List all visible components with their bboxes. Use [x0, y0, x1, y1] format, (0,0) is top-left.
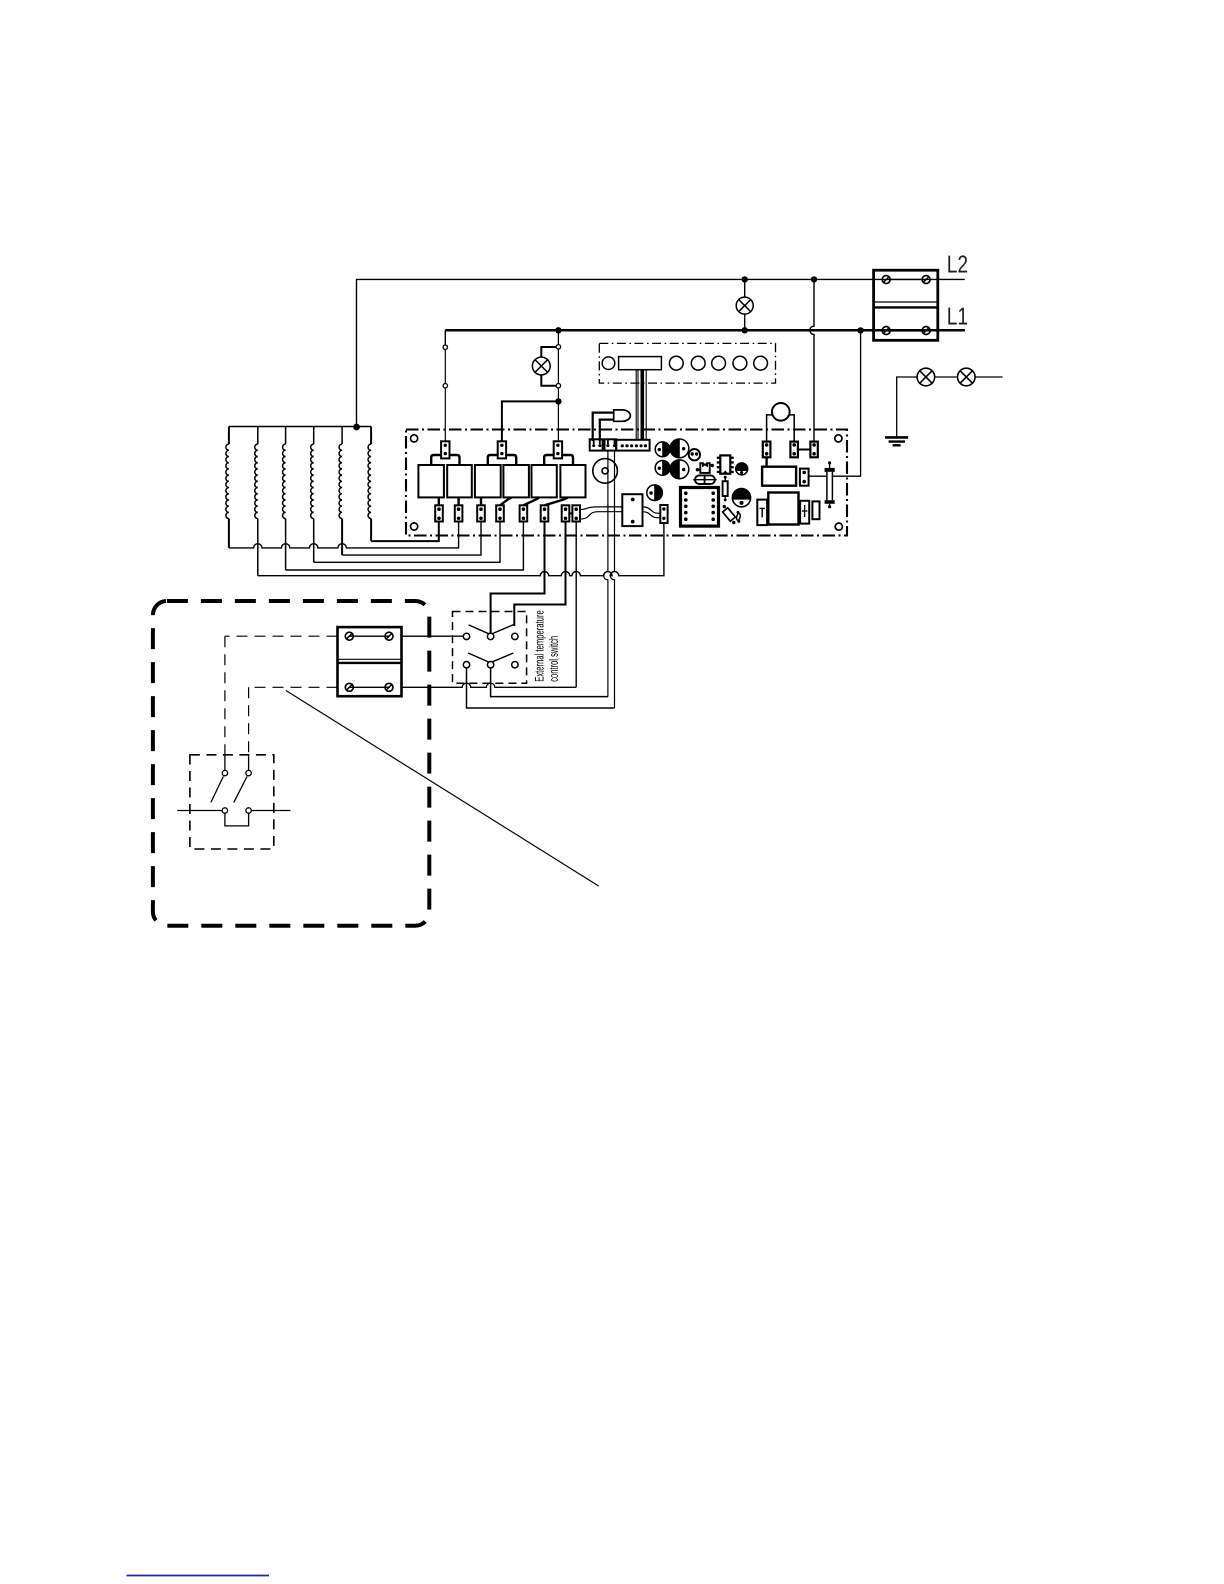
- node junction L1-thermal switch: [555, 327, 561, 333]
- node junction below right cutout: [555, 398, 561, 404]
- voltage regulator U4: [768, 493, 798, 525]
- ext-switch top: common contact: [487, 633, 493, 639]
- external control unit enclosure (heavy dashed box): [153, 601, 429, 926]
- wire heater coil 6 to connector C1: [371, 522, 439, 542]
- transistor Q2: [732, 489, 750, 507]
- thermostat through-wire: [177, 810, 222, 812]
- panel button 2: [691, 356, 705, 370]
- panel indicator circle: [602, 357, 615, 370]
- mains connector CN-C: [810, 442, 817, 458]
- diode D2: [670, 439, 689, 458]
- wire right of earth lamps: [975, 376, 1003, 378]
- wire track motor connector to C9 (lower): [643, 512, 661, 518]
- terminal block TB2 (external switch terminals): [338, 627, 402, 696]
- leader line to external switch: [286, 691, 599, 887]
- ext-switch bottom blade right: [492, 653, 513, 662]
- PCB header connector CN3 (display ribbon): [616, 440, 649, 451]
- wire L1 junction down to right thermal cutout: [557, 330, 559, 344]
- external temperature control switch enclosure (dashed): [453, 612, 527, 684]
- relay group 2: input connector, bracket and relays K2a K2b: [498, 441, 506, 458]
- thermostat pole 2 upper contact: [248, 755, 250, 771]
- wire between left cutout contacts: [444, 349, 446, 383]
- earth lamp EL2: [958, 368, 976, 386]
- wire left cutout to PCB connector: [444, 388, 446, 442]
- output connector C6: [541, 505, 549, 521]
- wire connector C8 down to thermostat line: [575, 522, 577, 688]
- terminal block TB1 (L2/L1 input): [874, 270, 938, 340]
- ext-switch top: left contact: [463, 633, 469, 639]
- transformer output connector CN-T: [800, 469, 809, 486]
- diode D4: [670, 460, 689, 479]
- node junction L2-PCB drop: [811, 276, 817, 282]
- node junction L1-transformer drop: [857, 327, 863, 333]
- thermostat pole 1 upper contact: [224, 755, 226, 771]
- wire L2 line: [357, 279, 965, 427]
- wire heater coil 5 to connector C3: [342, 522, 481, 556]
- wire TB2 bottom row to connector C8 (hops over switch drops): [402, 683, 577, 687]
- panel button 1: [669, 356, 683, 370]
- indicator lamp HL2 across right cutout: [541, 347, 555, 357]
- label L2: [948, 255, 967, 272]
- phantom wire TB2 bottom to thermostat (dashed): [249, 686, 338, 688]
- connector C9: [660, 505, 667, 523]
- wire track motor connector to C9 (upper): [643, 507, 661, 513]
- heater element coil 2: [257, 427, 259, 445]
- ext-switch bottom: common contact: [487, 662, 493, 668]
- ext-switch top blade right: [492, 625, 513, 634]
- wire right cutout to junction: [557, 388, 559, 442]
- transformer T1: [762, 467, 796, 486]
- PCB header connector CN1 (LED): [590, 439, 603, 450]
- wire relay K3b to connector C6 (diagonal): [545, 497, 569, 505]
- wire from L1 junction down-right to transformer connector: [809, 330, 861, 476]
- heater top bus from L2: [229, 426, 371, 428]
- ext-switch top: right contact: [512, 633, 518, 639]
- wire relay K1b to connector C2: [457, 497, 459, 505]
- wire relay K2b to connector C4 (diagonal): [500, 497, 512, 505]
- motor connector CN4: [622, 494, 642, 526]
- transistor Q1: [736, 463, 748, 475]
- left thermal cutout contact b: [443, 384, 447, 388]
- wire between earth lamps: [935, 376, 958, 378]
- wire relay K2a to connector C3: [480, 497, 482, 505]
- thermal sensor connector CN-B: [790, 442, 798, 458]
- resistor R1: [723, 481, 728, 496]
- LED indicator above PCB: [593, 413, 614, 441]
- wire heater coil 2 long line to connector C9 (hops): [258, 523, 664, 576]
- wire L1 line: [445, 329, 965, 332]
- wire TB2 top row to ext-switch left contact: [402, 635, 464, 637]
- microcontroller IC U1: [681, 488, 719, 527]
- panel button 5: [754, 356, 768, 370]
- output connector C4: [496, 505, 504, 521]
- diode D1: [655, 442, 670, 457]
- PCB mounting hole bottom-left: [411, 523, 418, 530]
- thermal sensor connector CN-A: [763, 442, 771, 458]
- node junction L2-lamp: [742, 276, 748, 282]
- diode D5: [647, 485, 663, 501]
- output connector C2: [455, 505, 463, 521]
- indicator lamp HL1 between L2 and L1: [744, 279, 746, 297]
- capacitor C3: [812, 501, 819, 519]
- diode D3: [655, 461, 670, 476]
- thermostat pole 1 blade: [211, 777, 223, 803]
- ext-switch top blade left: [469, 625, 489, 634]
- PCB mounting hole top-right: [835, 435, 842, 442]
- right thermal cutout contact b: [556, 384, 560, 388]
- buzzer BZ1: [593, 459, 618, 484]
- label L1: [948, 308, 967, 325]
- right thermal cutout contact a: [556, 345, 560, 349]
- heater element coil 6: [370, 427, 372, 445]
- output connector C5: [520, 505, 528, 521]
- PCB mounting hole bottom-right: [835, 523, 842, 530]
- heater element coil 1: [228, 427, 230, 445]
- wire branch junction to PCB connector 2: [502, 401, 559, 441]
- relay group 1: input connector, bracket and relays K1a K1b: [441, 441, 449, 458]
- wire connector C7 to ext-switch right contact: [514, 522, 565, 627]
- wire earth-lamp branch: [897, 377, 917, 437]
- node junction L1-lamp: [742, 327, 748, 333]
- output connector C1: [435, 505, 443, 521]
- wire connector C6 to ext-switch common (top): [491, 522, 545, 634]
- fuse F2 capsule: [695, 475, 715, 484]
- heater element coil 5: [341, 427, 343, 445]
- relay group 3: input connector, bracket and relays K3a K3b: [554, 441, 562, 458]
- IC U2 (SO-8): [720, 455, 730, 473]
- thermostat pole 1 lower contact: [222, 808, 227, 813]
- output connector C8: [572, 505, 580, 521]
- phantom wire TB2 top to thermostat (dashed): [225, 635, 338, 637]
- control panel dash-dot enclosure: [599, 343, 775, 383]
- link bar between connectors C7 and C8: [569, 512, 572, 514]
- output connector C3: [477, 505, 485, 521]
- PCB mounting hole top-left: [411, 435, 418, 442]
- ribbon cable from panel to PCB connector CN3: [635, 370, 637, 441]
- wire ext-switch bottom-left contact down to riser: [467, 668, 615, 708]
- wire ext-switch bottom-common down to riser: [491, 668, 608, 697]
- node junction heater bus: [353, 424, 360, 431]
- wire relay K1a to connector C1: [438, 497, 440, 505]
- capacitor CE2: [800, 501, 809, 524]
- capacitor CE1: [757, 500, 767, 525]
- ext-switch bottom: right contact: [512, 662, 518, 668]
- footer rule (blue): [127, 1575, 270, 1577]
- fuse F1 (vertical): [828, 461, 831, 464]
- jumper link circle: [689, 449, 700, 460]
- diode D6 (diagonal): [723, 508, 736, 521]
- output connector C7: [562, 505, 570, 521]
- ground symbol: [885, 436, 908, 439]
- ext-switch bottom blade left: [468, 653, 489, 662]
- ext-switch bottom: left contact: [463, 662, 469, 668]
- heater element coil 4: [313, 427, 315, 445]
- wire heater coil 3 to connector C5: [286, 522, 524, 571]
- wire heater coil 4 to connector C4: [314, 522, 500, 563]
- wire track C8 to motor connector (lower): [580, 512, 622, 519]
- bead component L2b: [736, 513, 741, 521]
- thermostat pole 2 lower contact: [246, 808, 251, 813]
- left thermal cutout contact a: [443, 345, 447, 349]
- PCB board dash-dot outline: [406, 430, 847, 536]
- earth lamp EL1: [917, 368, 935, 386]
- PCB header connector CN2 (external switch): [605, 439, 617, 450]
- wire track C8 to motor connector (upper): [580, 507, 622, 510]
- wire L1 corner down to left thermal cutout: [444, 330, 446, 345]
- thermostat link (U shape): [225, 813, 249, 826]
- thermostat pole 2 blade: [234, 777, 247, 803]
- wire risers to external switch (pass through buzzer area): [604, 451, 608, 697]
- opto-coupler U3: [700, 463, 709, 473]
- link bar CN-B to CN-C: [798, 449, 811, 451]
- wire relay K3a to connector C5 (diagonal): [523, 497, 539, 505]
- thermistor sensor above PCB: [772, 403, 790, 421]
- room thermostat enclosure (dashed): [190, 755, 274, 849]
- wire between right cutout contacts: [557, 349, 559, 384]
- panel display window: [619, 357, 662, 370]
- label External temperature control switch: [535, 611, 547, 682]
- panel button 3: [712, 356, 726, 370]
- wire heater coil 1 bus to connector C2 (hops): [229, 522, 459, 548]
- wire CN-A to transformer: [765, 457, 767, 466]
- panel button 4: [733, 356, 747, 370]
- heater element coil 3: [285, 427, 287, 445]
- wire from L2 down to PCB connector CN-C (hops over L1): [810, 279, 814, 441]
